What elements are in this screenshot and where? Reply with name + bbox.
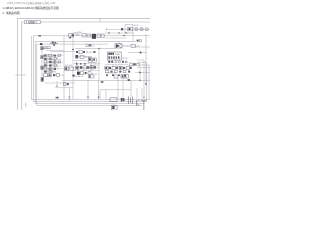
wire corner y89.8 <box>100 90 131 100</box>
svg-text:B44: B44 <box>53 72 56 74</box>
enclosure right wrap <box>139 65 149 99</box>
cluster box A18 <box>44 71 46 73</box>
wire vert x131 <box>130 80 132 97</box>
right band comp r8 <box>130 67 132 69</box>
wire y83 left <box>45 82 75 84</box>
block cell 1 <box>108 53 110 55</box>
chain left wire <box>107 28 122 30</box>
right band comp r1 <box>105 66 108 69</box>
cc tick 1 <box>76 63 77 65</box>
band row3 right boxes <box>114 75 118 78</box>
cluster row y73-77 <box>44 74 48 77</box>
right band comp r7 <box>126 66 129 69</box>
right band comp r3 <box>112 66 115 69</box>
wire y67.5 right <box>137 67 150 69</box>
frame inner left <box>21 22 23 110</box>
dot J6 <box>145 83 147 85</box>
svg-text:K14·B1: K14·B1 <box>123 45 129 47</box>
band comp b3 <box>83 66 86 69</box>
bottom right row <box>110 88 147 110</box>
lamp L1 <box>135 28 138 31</box>
block outline <box>108 52 122 60</box>
dot J10 <box>139 80 141 82</box>
svg-text:B4 14A: B4 14A <box>127 32 134 35</box>
cc box 4 <box>88 58 92 63</box>
enclosure box B4 <box>37 44 142 105</box>
vertical chain wire <box>41 45 43 83</box>
band comp b4 <box>87 66 89 69</box>
small cluster above wire <box>86 44 89 46</box>
center cluster box1 <box>82 34 86 37</box>
center cluster box4 <box>101 34 104 37</box>
cc box 5 <box>93 58 97 62</box>
cluster box A19 <box>49 71 52 73</box>
cluster box A16 <box>49 68 52 70</box>
wire vert x125 <box>124 25 126 34</box>
cluster box A13 <box>49 64 52 66</box>
chain comp D4 <box>41 77 44 81</box>
dot J3 <box>123 35 124 36</box>
svg-text:K6 B4 14: K6 B4 14 <box>75 76 83 78</box>
svg-text:JW64_CN-HC-W-4 线路标准图表与说明_4.6B: JW64_CN-HC-W-4 线路标准图表与说明_4.6B <box>7 1 55 5</box>
wire y72.4 right <box>135 71 150 73</box>
bus label <box>56 97 59 99</box>
component K1 on B4 edge <box>40 43 42 45</box>
wire vert x114 <box>113 103 115 105</box>
title box <box>24 21 40 24</box>
band row2 box <box>81 72 84 75</box>
cluster box A3 <box>53 55 56 57</box>
cc tick 3 <box>84 63 85 65</box>
ticks x69.4 <box>68 96 70 98</box>
cluster box A9 <box>49 61 52 63</box>
transistor Q1 <box>137 100 140 106</box>
band comp b2 <box>80 66 82 69</box>
marks near x138 y41 <box>137 40 139 42</box>
band wire y70.2 <box>73 69 99 71</box>
right area wires <box>135 66 150 80</box>
wire y47.6 <box>42 47 44 49</box>
cluster box A11 <box>58 61 60 63</box>
wire vert x69.4 <box>68 88 70 101</box>
below-block symbol s5 <box>122 61 124 63</box>
wire vert x140 <box>139 66 141 80</box>
br bars <box>129 97 133 105</box>
cc mark 3 <box>93 51 95 53</box>
cc box 1 <box>79 51 82 54</box>
chain comp D1 <box>41 47 44 50</box>
svg-text:C14: C14 <box>60 75 63 77</box>
svg-text:2 · 电路多线图: 2 · 电路多线图 <box>2 11 19 15</box>
svg-text:C4 B6 K1 B4: C4 B6 K1 B4 <box>105 73 116 75</box>
wire vert x64 <box>63 36 65 100</box>
enclosure box B2 <box>33 36 150 102</box>
svg-text:C6: C6 <box>92 46 94 48</box>
enclosure box B1 left <box>30 36 32 99</box>
wire vert x73 <box>72 36 74 100</box>
cluster box A6 <box>49 58 52 60</box>
cluster box A10 <box>54 61 56 63</box>
svg-text:14C·B46: 14C·B46 <box>65 65 72 67</box>
small symbol x128 y79.5 <box>128 79 130 81</box>
wire row y41.3b <box>105 40 120 42</box>
cc wire y56.5 <box>75 56 92 58</box>
right band comp r2 <box>109 67 111 69</box>
cluster verticals <box>48 54 58 73</box>
wire vert x106 <box>105 90 107 100</box>
valve triangle <box>53 44 56 46</box>
cc mark 2 <box>83 51 85 53</box>
svg-text:B4·14C: B4·14C <box>86 52 93 54</box>
band row2 box2 <box>88 72 91 75</box>
cluster box A14 <box>54 64 56 67</box>
block cell 3 <box>112 53 114 55</box>
dot J2 <box>118 32 119 33</box>
mid right block <box>105 52 139 68</box>
wire vert x88 <box>87 80 89 99</box>
svg-text:C1: C1 <box>59 66 61 68</box>
br box <box>110 98 117 102</box>
relay box RY2 <box>115 44 122 48</box>
enclosure box B1 bottom <box>31 98 150 100</box>
below-block symbol s1 <box>108 61 110 63</box>
chain comp D3 <box>41 66 44 69</box>
valve bar <box>50 42 58 44</box>
band comp b5 <box>90 66 93 69</box>
wire vert x119 <box>118 41 120 44</box>
cc wire y63.8 <box>74 63 100 65</box>
vert x57 with arrow <box>56 81 58 86</box>
cc box 2 dark <box>75 55 78 58</box>
switch SW1 <box>121 28 123 30</box>
chain left tick <box>106 28 108 30</box>
cluster box A5 <box>44 58 46 60</box>
wire vert x118 <box>117 75 119 99</box>
T element <box>141 101 146 110</box>
center cluster box2 <box>87 34 91 37</box>
wire vert x142 <box>141 88 143 101</box>
right band mid row <box>106 70 109 72</box>
frame outer left <box>16 18 18 110</box>
svg-text:S14: S14 <box>75 34 78 36</box>
band row2 dark <box>77 72 80 75</box>
cc box 3 <box>80 55 84 58</box>
band divider <box>99 18 101 22</box>
small cluster above wire 2 <box>89 44 91 46</box>
wire vert x123 <box>122 75 124 99</box>
dot J1 <box>108 32 109 33</box>
svg-text:B4: B4 <box>143 97 145 99</box>
cluster box A4 <box>58 54 61 56</box>
left cluster top: valve symbol <box>42 42 64 51</box>
long wire y80.4 <box>62 79 150 81</box>
dot J4 <box>72 49 74 51</box>
right band comp r4 <box>116 67 118 69</box>
arrow x88 <box>87 97 89 99</box>
wire vert x133 <box>132 25 134 41</box>
svg-text:14B6: 14B6 <box>45 48 49 50</box>
block cell 2 <box>110 53 112 55</box>
band comp b6 <box>94 66 96 68</box>
left dense cluster <box>43 54 63 77</box>
center cluster IC dark <box>92 34 96 39</box>
below-block symbol s3 <box>115 61 117 63</box>
below-block symbol s6 <box>125 61 127 63</box>
terminal T1 <box>146 28 148 30</box>
bottom comp at edge <box>111 105 117 110</box>
valve marks <box>52 42 54 43</box>
dot J5 <box>140 52 142 54</box>
lamp L2 <box>140 28 143 31</box>
block hatch row <box>108 56 110 58</box>
bottom left stub <box>25 103 27 107</box>
frame outer top <box>17 17 150 19</box>
right band comp r5 <box>119 66 122 69</box>
svg-text:B·14C: B·14C <box>122 58 128 60</box>
svg-text:F14 B6: F14 B6 <box>133 25 139 27</box>
enclosure box B3 <box>35 41 144 103</box>
wire y52.4 right <box>128 52 146 54</box>
wire vert x137 <box>136 88 138 100</box>
top right chain wire <box>120 28 150 30</box>
br marks <box>121 98 123 101</box>
wire y51.4 <box>50 50 75 52</box>
mid box M1 <box>65 67 69 71</box>
chain comp D2 <box>41 56 44 59</box>
RY2 right box <box>131 44 135 47</box>
right band row2 marks <box>106 74 108 76</box>
cluster box A7 <box>54 58 56 60</box>
cluster box A12 <box>44 64 46 66</box>
cc mark 1 <box>76 51 78 53</box>
frame inner top <box>22 21 150 23</box>
svg-text:B14·C6 K4: B14·C6 K4 <box>112 66 121 68</box>
fuse box F1 <box>128 27 133 31</box>
RY2 dark cell <box>116 45 118 48</box>
below-block symbol s4 <box>118 61 120 63</box>
dot J7 <box>139 72 141 74</box>
svg-text:1.14B3x5_EM(14C1)4B-46 线路系统连接示: 1.14B3x5_EM(14C1)4B-46 线路系统连接示意图 <box>2 6 59 10</box>
wire y47 right <box>135 46 150 48</box>
top connector x125-133 <box>125 24 133 26</box>
wire row y33 <box>105 32 128 34</box>
below-block wire <box>105 64 128 66</box>
central band components <box>72 66 140 83</box>
wire y50.5 <box>46 50 64 52</box>
band comp b1 <box>76 66 79 69</box>
cluster box A8 <box>44 61 47 63</box>
frame left tick <box>15 74 26 76</box>
cluster box A1 <box>44 54 47 56</box>
right small boxes <box>129 63 132 66</box>
dot J9 <box>98 48 99 49</box>
dot J8 <box>125 32 126 33</box>
wire y48.4 <box>75 47 115 49</box>
RY2 wire <box>122 45 140 47</box>
right band comp r6 <box>123 67 125 69</box>
labeled box LB1 <box>44 47 50 49</box>
band wire y67.6 <box>73 67 99 69</box>
band row3 left marks <box>72 75 74 77</box>
svg-text:B4: B4 <box>59 59 61 61</box>
mid box M2 <box>70 67 74 70</box>
center cluster box3 <box>97 34 100 37</box>
below-block symbol s2 <box>111 61 113 63</box>
cluster wires <box>43 56 63 72</box>
wire mark x101 <box>101 81 104 83</box>
relay RY1 <box>68 34 74 39</box>
wire vert x146 <box>145 34 147 84</box>
cc wire y60.4 <box>74 59 89 61</box>
wire y87.8 <box>55 87 73 89</box>
cluster box A2 <box>49 54 52 56</box>
wire vert x98.6 <box>98 80 100 99</box>
wire vert x99 <box>98 48 100 80</box>
mid cluster near x66 y67 <box>65 65 74 70</box>
symbols near x65 y84 <box>63 83 66 86</box>
arrow x98.6 <box>98 97 100 99</box>
component K2 on B2 edge <box>39 35 41 37</box>
cluster box A15 <box>44 68 47 70</box>
wire row y38 <box>105 37 126 39</box>
cc tick 2 <box>80 63 81 65</box>
cluster box A17 <box>54 68 56 70</box>
band row2 mark <box>85 72 87 74</box>
central cluster top row <box>74 51 100 67</box>
